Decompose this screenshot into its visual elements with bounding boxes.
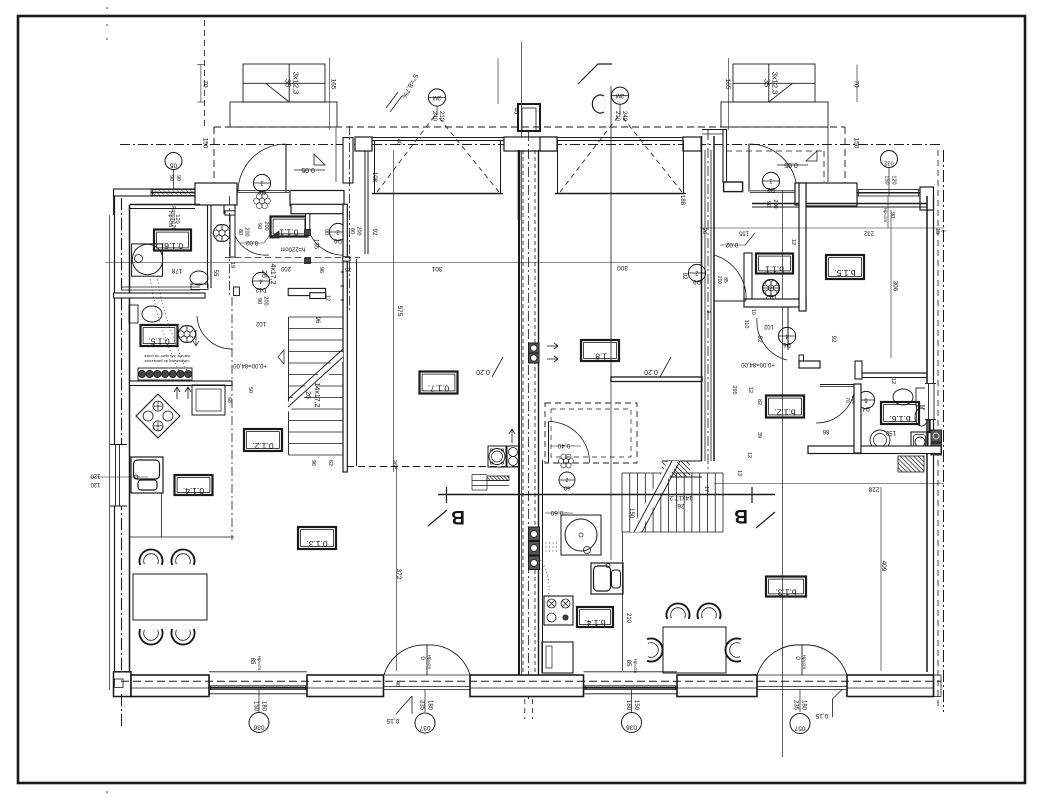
- svg-text:0.1.6.: 0.1.6.: [162, 241, 183, 251]
- svg-text:92: 92: [830, 336, 836, 343]
- svg-text:12: 12: [746, 452, 752, 458]
- dim stub 037 a: [424, 689, 426, 712]
- svg-text:9: 9: [705, 311, 711, 314]
- table a: [133, 574, 207, 620]
- svg-text:+0.00=84,00: +0.00=84,00: [740, 361, 774, 367]
- garage b top wall left chunk: [540, 137, 557, 151]
- section line C-C vertical: [610, 86, 612, 377]
- stair b break lines: [634, 461, 672, 532]
- svg-text:12: 12: [325, 295, 331, 301]
- svg-text:0.1.4.: 0.1.4.: [183, 486, 204, 496]
- svg-text:120: 120: [174, 214, 180, 223]
- shower a: [132, 244, 163, 276]
- svg-text:90: 90: [256, 223, 262, 229]
- level triangle: [270, 231, 279, 238]
- svg-text:b.1.4.: b.1.4.: [584, 618, 605, 628]
- chair a3: [139, 629, 162, 644]
- right ext stair upper rect: [733, 64, 815, 102]
- slope text 5=8.7%: [400, 72, 420, 99]
- svg-text:68: 68: [226, 397, 232, 403]
- label 0.1.3: [298, 527, 336, 549]
- wall porch b right: [795, 183, 806, 205]
- right wall outer: [933, 196, 935, 697]
- right wall dashed: [937, 150, 939, 710]
- dim stub 036 b: [631, 689, 633, 712]
- dim line 372 vertical: [396, 466, 398, 671]
- b11 top wall: [752, 203, 806, 205]
- garage a door open panel: [375, 141, 501, 194]
- building axis dash-dot line: [120, 144, 943, 146]
- bath a wall right: [207, 205, 209, 288]
- svg-text:295: 295: [731, 385, 737, 394]
- dim 165 left: [328, 58, 330, 130]
- svg-text:19: 19: [934, 228, 940, 234]
- svg-text:12: 12: [890, 378, 896, 384]
- svg-text:50: 50: [247, 387, 253, 393]
- hall top wall: [291, 204, 344, 213]
- b12 bottom wall: [808, 446, 861, 454]
- dashed void rect: [545, 403, 637, 463]
- bubble D9 2 b: [688, 264, 705, 281]
- svg-text:- 0,40: - 0,40: [557, 442, 574, 449]
- door arc b12 top: [787, 307, 789, 350]
- svg-text:70: 70: [853, 80, 860, 88]
- chimney block: [518, 104, 540, 131]
- svg-text:b.1.1: b.1.1: [765, 265, 784, 275]
- window bottom a1: [209, 671, 307, 673]
- fridge b: [542, 642, 573, 673]
- svg-text:0.05: 0.05: [301, 166, 315, 173]
- svg-text:210: 210: [625, 613, 631, 624]
- porch b dashed side: [844, 127, 846, 183]
- dim 306: [890, 210, 892, 358]
- terrace door a arcs: [384, 645, 427, 675]
- entry door b swing: [749, 144, 797, 192]
- washbasin b11: [774, 285, 780, 291]
- porch a dashed side: [213, 127, 215, 183]
- dotted trail party wall: [540, 560, 549, 600]
- door bubble D2 1 left: [253, 174, 270, 191]
- svg-text:90: 90: [256, 298, 262, 304]
- svg-text:240: 240: [621, 111, 627, 122]
- stove b: [544, 596, 573, 625]
- svg-text:235: 235: [419, 700, 425, 711]
- svg-text:60: 60: [564, 485, 570, 491]
- chair b3: [647, 639, 662, 662]
- flower tech b: [568, 458, 573, 463]
- svg-text:Hp=cm: Hp=cm: [883, 208, 888, 223]
- basin b: [915, 408, 928, 426]
- svg-text:odsesavanj do pavizzona: odsesavanj do pavizzona: [144, 359, 190, 364]
- bath a wall bottom thick: [114, 293, 206, 298]
- stove a diamond: [136, 394, 180, 438]
- wall below radiators: [130, 381, 233, 386]
- entry door b leaf: [748, 144, 750, 192]
- svg-text:200: 200: [716, 276, 722, 285]
- dim line across left: [105, 262, 702, 264]
- svg-text:35: 35: [284, 79, 293, 87]
- garage a top wall left chunk: [355, 137, 372, 151]
- label 0.1.6: [154, 230, 191, 251]
- svg-text:110: 110: [743, 320, 749, 329]
- hall right wall upper: [306, 214, 310, 234]
- svg-text:165: 165: [330, 79, 337, 90]
- dashed vertical above overhang: [204, 20, 206, 127]
- pier below hall: [343, 257, 350, 261]
- svg-text:D9: D9: [693, 278, 701, 284]
- entry door a swing: [238, 144, 286, 192]
- stair b boundary: [622, 472, 723, 474]
- right ext stair landing: [721, 102, 828, 127]
- garage b right wall: [701, 136, 703, 461]
- dim 70 left: [200, 65, 202, 103]
- svg-text:+0.00=84,00: +0.00=84,00: [232, 362, 266, 368]
- svg-text:036: 036: [253, 724, 264, 731]
- niche wall: [230, 214, 235, 257]
- label b.1.4: [577, 607, 613, 627]
- svg-text:200: 200: [263, 221, 269, 230]
- svg-text:Hp=cm: Hp=cm: [257, 656, 262, 671]
- porch b dashed rect: [726, 150, 824, 152]
- section B right flag: [751, 487, 753, 503]
- svg-text:26: 26: [701, 228, 707, 234]
- svg-text:B: B: [734, 505, 748, 526]
- tread lines tech a: [472, 474, 487, 476]
- dim stub 036 a: [258, 689, 260, 712]
- svg-text:2M: 2M: [616, 92, 624, 98]
- svg-text:26: 26: [677, 502, 685, 509]
- svg-text:575: 575: [396, 306, 403, 317]
- stair a break lines: [288, 357, 343, 407]
- dim circle 037 a: [415, 713, 435, 733]
- svg-text:032: 032: [884, 160, 893, 166]
- sink a: [131, 457, 163, 493]
- section B left flag: [446, 487, 448, 503]
- window b texts: [887, 196, 889, 228]
- svg-text:150: 150: [884, 175, 890, 184]
- left ext stair landing: [230, 102, 337, 127]
- fixture round b16: [870, 430, 890, 450]
- svg-text:150,: 150,: [628, 508, 634, 520]
- toilet b: [893, 389, 913, 405]
- arrow tech a: [509, 429, 515, 443]
- party wall radiator blocks mid: [529, 343, 540, 353]
- dim circle 032: [881, 151, 898, 168]
- porch right wall: [343, 138, 353, 183]
- svg-text:90: 90: [168, 175, 174, 181]
- bottom wall chunk b2: [677, 675, 757, 697]
- bubble D6 4: [778, 327, 795, 344]
- tech b door leaf: [548, 422, 550, 463]
- svg-text:b.1.5.: b.1.5.: [834, 268, 855, 278]
- counter square a: [192, 385, 225, 415]
- svg-text:Hp=cm: Hp=cm: [802, 655, 807, 670]
- svg-text:b.1.2.: b.1.2.: [774, 408, 795, 418]
- radiator row wc a: [138, 368, 192, 380]
- label b.1.1: [756, 254, 793, 274]
- svg-text:96: 96: [318, 267, 324, 273]
- porch b pier: [724, 182, 743, 192]
- svg-text:90: 90: [323, 229, 329, 235]
- svg-text:26: 26: [304, 391, 311, 399]
- entry door b sill: [750, 190, 797, 192]
- radiators b16: [931, 430, 942, 442]
- dashdot axis hall a: [229, 196, 231, 298]
- svg-text:4x17,2: 4x17,2: [269, 263, 276, 284]
- stair b break mask: [630, 461, 678, 532]
- door bubble D12 4: [252, 272, 269, 289]
- washer b16: [911, 432, 928, 451]
- svg-text:05: 05: [170, 162, 178, 169]
- svg-text:2M: 2M: [433, 94, 441, 100]
- chair b2: [697, 603, 720, 618]
- svg-text:85: 85: [722, 277, 728, 283]
- door jamb dark 1: [305, 230, 311, 236]
- b16 top wall: [855, 361, 862, 379]
- dim 300 b: [610, 230, 612, 377]
- svg-text:kamen; zaLopec na polze: kamen; zaLopec na polze: [143, 354, 189, 359]
- dim stub 037 b: [799, 689, 801, 712]
- svg-text:12: 12: [790, 239, 796, 245]
- svg-text:0.1.7.: 0.1.7.: [428, 384, 449, 394]
- svg-text:037: 037: [419, 724, 430, 731]
- dim line right apt: [700, 227, 944, 229]
- dim circle 036 b: [622, 713, 642, 733]
- hatch block tech a: [487, 476, 509, 481]
- dim 120 outside: [90, 476, 148, 478]
- left ext stair upper rect: [243, 64, 325, 102]
- stair a treads: [289, 316, 344, 318]
- garage b wall hatch: [662, 472, 667, 477]
- svg-text:17: 17: [703, 486, 709, 492]
- dashdot kitchen boundary: [231, 297, 233, 540]
- kitchen arrows: [174, 387, 180, 399]
- svg-text:150: 150: [202, 138, 209, 149]
- b16 window right wall: [925, 384, 936, 420]
- b11 bottom wall: [744, 299, 806, 307]
- right wall inner: [926, 196, 928, 672]
- svg-text:235: 235: [793, 700, 799, 711]
- chair a2: [171, 549, 194, 564]
- svg-text:92: 92: [371, 229, 377, 236]
- bath a wall bottom thin: [121, 286, 200, 288]
- svg-text:25: 25: [345, 266, 351, 272]
- svg-text:45: 45: [513, 108, 519, 115]
- washbasin wc a: [190, 331, 196, 337]
- washer a2: [507, 446, 519, 467]
- svg-text:0.02: 0.02: [725, 241, 738, 248]
- arrow down wc: [193, 330, 199, 346]
- svg-text:39: 39: [756, 432, 762, 438]
- svg-text:0.1.5.: 0.1.5.: [148, 337, 169, 347]
- svg-text:26: 26: [260, 270, 267, 278]
- svg-text:6: 6: [940, 230, 946, 233]
- label 0.1.1: [271, 217, 308, 237]
- svg-text:D12: D12: [765, 293, 777, 299]
- dashdot axis porch right: [349, 126, 351, 310]
- washbasin niche a: [225, 230, 231, 236]
- dot below border: [106, 791, 108, 793]
- window top-left: [151, 190, 198, 196]
- svg-text:300: 300: [617, 264, 628, 271]
- dim 45 chimney: [497, 58, 499, 104]
- garage a top wall right chunk: [504, 137, 557, 151]
- right wall dark segment: [928, 420, 930, 433]
- porch b left wall: [723, 130, 727, 183]
- wall right of hall: [343, 204, 347, 472]
- svg-text:108: 108: [371, 172, 377, 183]
- garage b door open panel: [558, 141, 684, 194]
- svg-text:b.1.6.: b.1.6.: [889, 414, 910, 424]
- door b11 garage arc: [714, 300, 746, 302]
- svg-text:90: 90: [175, 175, 181, 181]
- party wall dark segment: [518, 150, 521, 220]
- label 0.1.5: [141, 325, 178, 346]
- washer a1: [488, 446, 506, 467]
- counter edge a: [161, 493, 163, 537]
- svg-text:178: 178: [171, 267, 182, 274]
- svg-text:D9: D9: [334, 237, 342, 243]
- svg-text:150: 150: [885, 429, 896, 435]
- b12 right wall: [854, 384, 861, 453]
- svg-text:0.05: 0.05: [784, 161, 798, 168]
- right wall dashdot: [943, 150, 945, 712]
- bottom dashed overhang: [121, 680, 941, 682]
- svg-text:70: 70: [844, 397, 850, 403]
- door bubble D2 1 right: [762, 172, 779, 189]
- section mark C top: [578, 64, 612, 84]
- tick dots above border: [106, 7, 108, 9]
- svg-text:Hp=cm: Hp=cm: [427, 655, 432, 670]
- svg-text:D6: D6: [783, 341, 791, 347]
- svg-text:D2: D2: [767, 186, 775, 192]
- svg-text:180: 180: [261, 701, 267, 712]
- garage b wall axis: [707, 130, 709, 470]
- svg-text:200: 200: [280, 265, 291, 271]
- b15 top wall lines: [806, 203, 927, 205]
- b11 left wall: [744, 253, 752, 299]
- left wall outer line1: [109, 215, 111, 690]
- svg-text:165: 165: [724, 79, 731, 90]
- svg-text:102: 102: [763, 323, 774, 329]
- garage a door opening lines: [372, 137, 504, 139]
- table b: [663, 627, 726, 673]
- svg-text:188: 188: [679, 195, 685, 206]
- wall porch to hall a: [290, 191, 344, 206]
- garage b door opening lines: [557, 137, 683, 139]
- svg-text:150: 150: [253, 701, 259, 712]
- svg-text:180: 180: [625, 700, 631, 711]
- svg-text:232: 232: [863, 230, 874, 236]
- terrace door b arcs: [757, 645, 802, 675]
- svg-text:90: 90: [889, 212, 895, 218]
- kitchen divider b: [622, 532, 624, 671]
- dim 165 right: [728, 58, 730, 130]
- svg-text:0.1.3.: 0.1.3.: [306, 539, 327, 549]
- svg-text:2: 2: [565, 476, 568, 482]
- left wall axis dashdot: [121, 198, 123, 694]
- svg-text:0,15: 0,15: [815, 712, 828, 719]
- stair b treads: [621, 473, 623, 532]
- bottom wall chunk center: [470, 675, 584, 697]
- svg-text:0.20: 0.20: [644, 368, 658, 375]
- garage b top wall right chunk: [683, 137, 701, 151]
- stair a break mask: [288, 352, 343, 412]
- svg-text:D4: D4: [862, 405, 870, 411]
- entry door a sill: [238, 190, 290, 192]
- party wall dashes below: [524, 699, 526, 719]
- svg-text:3x12,3: 3x12,3: [771, 72, 780, 95]
- svg-text:180: 180: [801, 700, 807, 711]
- svg-text:372: 372: [395, 569, 402, 580]
- svg-text:Hp=cm: Hp=cm: [633, 659, 638, 674]
- roof overhang dashed top: [214, 126, 845, 128]
- radiator arrows mid: [547, 343, 558, 349]
- svg-text:120: 120: [90, 481, 101, 487]
- chair b4: [725, 639, 740, 662]
- b15 bottom wall: [799, 361, 820, 368]
- door bubble D9 2: [329, 223, 346, 240]
- b15 left wall: [799, 183, 806, 311]
- flower washbasin porch a: [265, 198, 271, 204]
- chair a4: [172, 629, 195, 644]
- svg-text:96: 96: [314, 317, 320, 324]
- window bottom b1: [584, 671, 678, 673]
- svg-text:13: 13: [736, 470, 742, 476]
- roof overhang dashed corner left: [213, 127, 215, 145]
- boiler b: [561, 515, 601, 555]
- svg-text:92: 92: [681, 273, 687, 280]
- garage b bottom wall: [611, 377, 702, 382]
- hatch b16: [898, 456, 924, 472]
- svg-text:B: B: [451, 506, 465, 527]
- dim 70 right: [856, 65, 858, 103]
- svg-text:0.02: 0.02: [245, 239, 258, 246]
- svg-text:10: 10: [750, 309, 756, 315]
- svg-text:55: 55: [212, 270, 218, 277]
- pier left stair top: [234, 287, 240, 296]
- section line B: [438, 494, 775, 496]
- bubble 60: [559, 472, 575, 488]
- label b.1.3: [766, 577, 806, 597]
- hall bottom wall: [288, 288, 325, 295]
- label b.1.2: [766, 396, 804, 418]
- svg-text:150: 150: [633, 700, 639, 711]
- left bottom dashdot: [121, 694, 123, 728]
- svg-text:12: 12: [747, 387, 753, 393]
- svg-text:0,15: 0,15: [386, 717, 399, 724]
- svg-text:150: 150: [853, 138, 860, 149]
- dim circle 05: [165, 153, 182, 170]
- door arc wc a: [197, 316, 232, 349]
- svg-text:200: 200: [356, 226, 362, 235]
- svg-text:70: 70: [202, 80, 209, 88]
- dim line y483: [714, 483, 944, 485]
- garage b door dashed swing: [560, 114, 620, 192]
- svg-text:200: 200: [263, 296, 269, 305]
- svg-text:036: 036: [626, 724, 637, 731]
- bottom wall chunk a1: [131, 675, 209, 697]
- left wall top corner: [113, 189, 115, 215]
- svg-text:35: 35: [763, 79, 772, 87]
- svg-text:3x12,3: 3x12,3: [292, 72, 301, 95]
- svg-text:301: 301: [431, 265, 442, 272]
- garage side wall face: [364, 151, 366, 254]
- toilet a1: [190, 271, 208, 285]
- window b top: [857, 190, 920, 197]
- svg-text:057: 057: [794, 725, 805, 732]
- svg-text:14x17,2: 14x17,2: [313, 383, 320, 408]
